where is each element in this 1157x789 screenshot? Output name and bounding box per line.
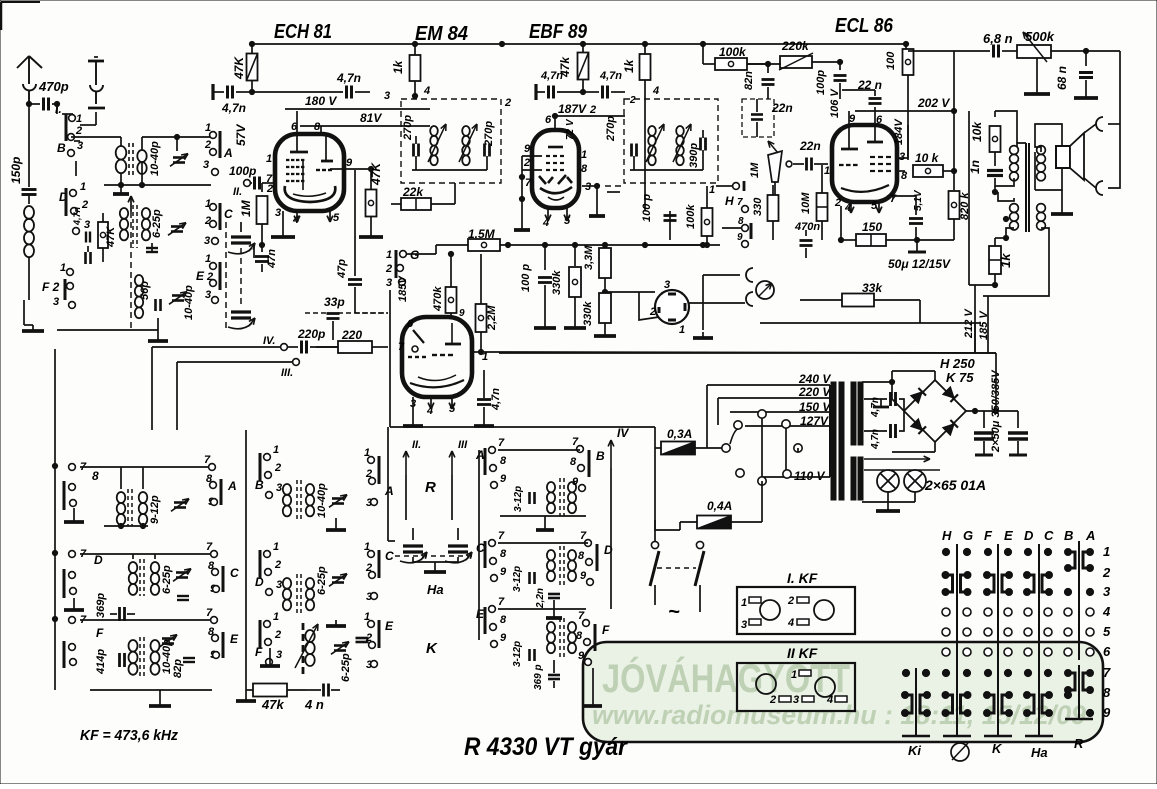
svg-text:4,7n: 4,7n bbox=[540, 70, 563, 82]
svg-text:EBF 89: EBF 89 bbox=[529, 21, 588, 43]
capacitor 82n bbox=[765, 61, 770, 66]
ground between filters bbox=[880, 399, 882, 407]
svg-text:47K: 47K bbox=[232, 56, 246, 80]
svg-text:G: G bbox=[410, 248, 419, 262]
svg-text:H 250: H 250 bbox=[940, 356, 975, 371]
coil IF secondary with core arrow bbox=[462, 126, 470, 136]
svg-text:II KF: II KF bbox=[787, 645, 818, 661]
wire fuse feed bbox=[655, 448, 680, 530]
svg-text:22n: 22n bbox=[799, 139, 821, 153]
svg-text:8: 8 bbox=[500, 455, 507, 467]
svg-text:5: 5 bbox=[1103, 624, 1111, 639]
capacitor 4,7n EM84 bbox=[483, 394, 485, 398]
wire bottom row3 bbox=[57, 329, 158, 331]
watermark radiomuseum box bbox=[583, 642, 1103, 742]
speaker bbox=[1056, 146, 1070, 168]
svg-text:1: 1 bbox=[80, 181, 86, 193]
wire bank1 left rail bbox=[54, 349, 56, 690]
svg-text:2×65 01A: 2×65 01A bbox=[924, 477, 986, 493]
wires row3 bottom bbox=[90, 689, 212, 691]
dashed box EBF89 IF transformer bbox=[624, 99, 718, 183]
svg-text:3: 3 bbox=[205, 289, 211, 301]
trimmer bank2 row1 bbox=[332, 497, 344, 500]
svg-text:4,7n: 4,7n bbox=[72, 206, 82, 226]
svg-text:3-12p: 3-12p bbox=[513, 486, 524, 512]
svg-text:2: 2 bbox=[266, 183, 273, 195]
IF transformer 2 6-25p bbox=[120, 208, 128, 219]
svg-text:82p: 82p bbox=[172, 659, 184, 678]
svg-text:4,7n: 4,7n bbox=[336, 71, 361, 85]
coil mid row2 bbox=[547, 550, 555, 560]
svg-text:6-25p: 6-25p bbox=[340, 653, 352, 682]
mechanical link dashed bbox=[395, 555, 476, 557]
svg-text:369 p: 369 p bbox=[533, 664, 544, 690]
tuning varcap 2 bbox=[231, 310, 251, 313]
svg-text:4: 4 bbox=[787, 617, 794, 629]
svg-text:1: 1 bbox=[76, 113, 82, 125]
wire top HT bus bbox=[252, 43, 908, 45]
wires jacks bbox=[1084, 124, 1096, 133]
svg-text:2,2n: 2,2n bbox=[535, 588, 546, 609]
svg-text:270p: 270p bbox=[483, 121, 495, 147]
svg-text:II.: II. bbox=[233, 186, 242, 198]
svg-text:100k: 100k bbox=[719, 45, 747, 59]
svg-text:6: 6 bbox=[876, 114, 883, 126]
wire vertical 954 drop bbox=[953, 51, 955, 111]
svg-text:3: 3 bbox=[204, 235, 210, 247]
svg-text:4,7n: 4,7n bbox=[870, 429, 881, 450]
IF transformer 1 10-40p bbox=[74, 136, 121, 138]
trimmer row2 bbox=[176, 571, 188, 574]
wire 500k wiper to ground bbox=[1036, 58, 1038, 88]
contact 7 row3 bbox=[69, 617, 76, 624]
svg-text:3: 3 bbox=[585, 181, 591, 193]
svg-text:F 2: F 2 bbox=[42, 280, 60, 294]
capacitor 6-25 trim bbox=[171, 225, 183, 228]
capacitor 6,8n bbox=[908, 50, 990, 52]
svg-text:2: 2 bbox=[523, 157, 530, 169]
svg-text:330k: 330k bbox=[551, 270, 563, 295]
svg-text:100k: 100k bbox=[685, 204, 697, 229]
wire 427 line bbox=[390, 426, 655, 428]
trimmer bank2 row2 bbox=[332, 576, 344, 579]
matrix row7 contacts bbox=[902, 669, 909, 676]
svg-text:220: 220 bbox=[341, 328, 362, 342]
svg-text:4: 4 bbox=[423, 85, 430, 97]
svg-text:2: 2 bbox=[629, 95, 636, 106]
matrix label speaker symbol bbox=[951, 743, 969, 761]
wires mid row2 bbox=[498, 542, 588, 544]
svg-text:EM 84: EM 84 bbox=[415, 23, 468, 45]
resistor 1k EBF89 right bbox=[644, 44, 646, 54]
svg-text:A: A bbox=[227, 479, 237, 493]
svg-text:100 p: 100 p bbox=[520, 264, 532, 292]
svg-text:220p: 220p bbox=[297, 327, 325, 341]
resistor 2,2M EM84 bbox=[476, 304, 487, 332]
svg-text:7: 7 bbox=[398, 341, 405, 353]
svg-text:187V: 187V bbox=[558, 102, 587, 116]
svg-text:1k: 1k bbox=[998, 253, 1013, 268]
svg-text:IV.: IV. bbox=[263, 335, 275, 347]
power transformer core bbox=[831, 382, 836, 500]
svg-text:3: 3 bbox=[84, 219, 90, 231]
svg-text:9: 9 bbox=[346, 157, 353, 169]
scan edge artifact bbox=[1, 1, 40, 3]
svg-text:47p: 47p bbox=[336, 259, 348, 279]
svg-text:1: 1 bbox=[273, 611, 279, 623]
svg-text:2: 2 bbox=[274, 462, 281, 474]
svg-text:1: 1 bbox=[791, 669, 797, 681]
svg-text:8: 8 bbox=[576, 630, 583, 642]
svg-text:6: 6 bbox=[407, 318, 414, 330]
EBF89 cathode bus left bbox=[521, 156, 523, 224]
coil antenna bbox=[24, 206, 34, 219]
svg-text:6-25p: 6-25p bbox=[151, 209, 163, 238]
svg-text:5: 5 bbox=[333, 212, 340, 224]
IF transformer 6-25p bbox=[129, 562, 138, 573]
svg-text:10-40p: 10-40p bbox=[183, 285, 195, 320]
svg-text:2: 2 bbox=[274, 559, 281, 571]
svg-text:2: 2 bbox=[834, 197, 841, 209]
capacitor 100p det bbox=[644, 96, 646, 211]
phono socket bbox=[655, 290, 689, 324]
ground bank2 row1 bbox=[335, 524, 337, 530]
resistor 1k EM84 anode bbox=[414, 44, 416, 55]
capacitor 100p at 220k bbox=[812, 61, 840, 63]
svg-text:9: 9 bbox=[572, 476, 579, 488]
svg-text:1: 1 bbox=[1103, 544, 1110, 559]
ground tuning bbox=[413, 557, 435, 562]
potentiometer 1M volume bbox=[768, 151, 782, 182]
svg-text:F: F bbox=[602, 623, 610, 637]
resistor 100k screen ECL86 bbox=[702, 44, 704, 64]
IF transformer bank2 row2 bbox=[283, 578, 291, 589]
wire HT 323 line bbox=[919, 300, 921, 323]
svg-text:414p: 414p bbox=[95, 649, 107, 675]
svg-text:A: A bbox=[223, 146, 233, 160]
resistor 33k bbox=[800, 299, 843, 301]
wire 92 to 4,7n coupling bbox=[252, 91, 343, 93]
IF transformer 9-12p bbox=[117, 492, 126, 503]
wire HT line 353 bbox=[499, 352, 996, 354]
svg-text:8: 8 bbox=[500, 548, 507, 560]
resistor 820k bbox=[953, 171, 955, 190]
svg-text:~: ~ bbox=[668, 601, 680, 623]
svg-text:270p: 270p bbox=[402, 115, 414, 141]
svg-text:K 75: K 75 bbox=[946, 370, 974, 385]
svg-text:7: 7 bbox=[525, 177, 532, 189]
svg-text:R: R bbox=[1074, 736, 1084, 751]
tube EM84 envelope bbox=[402, 317, 472, 397]
svg-text:184V: 184V bbox=[893, 118, 905, 145]
svg-text:2: 2 bbox=[274, 629, 281, 641]
svg-text:185V: 185V bbox=[397, 275, 409, 302]
tuning gang varcap left bbox=[403, 544, 423, 547]
svg-text:7: 7 bbox=[498, 596, 505, 608]
coil IF3 secondary bbox=[676, 126, 684, 136]
svg-text:2: 2 bbox=[649, 306, 656, 318]
coil mid row3 bbox=[547, 622, 555, 632]
matrix rows2-3 contacts bbox=[946, 575, 953, 592]
svg-text:ECL 86: ECL 86 bbox=[835, 15, 894, 37]
svg-text:2: 2 bbox=[504, 97, 511, 109]
svg-text:2: 2 bbox=[81, 199, 88, 211]
wire antenna down bbox=[56, 104, 58, 114]
svg-text:369p: 369p bbox=[95, 593, 107, 618]
svg-text:E: E bbox=[230, 632, 239, 646]
EM84 internals bbox=[413, 330, 424, 343]
dashed box EM84 IF transformer bbox=[401, 99, 501, 183]
svg-text:3: 3 bbox=[276, 579, 282, 591]
svg-text:II.: II. bbox=[412, 439, 421, 451]
svg-text:4: 4 bbox=[1102, 604, 1111, 619]
svg-text:1: 1 bbox=[386, 249, 392, 261]
svg-text:10-40p: 10-40p bbox=[316, 483, 328, 518]
svg-text:3: 3 bbox=[275, 207, 281, 219]
svg-text:9: 9 bbox=[500, 632, 507, 644]
svg-text:9: 9 bbox=[1103, 705, 1111, 720]
svg-text:8: 8 bbox=[1103, 685, 1111, 700]
svg-text:4: 4 bbox=[652, 85, 659, 97]
potentiometer 500k bbox=[1017, 45, 1051, 58]
svg-text:3: 3 bbox=[741, 619, 747, 631]
svg-text:202 V: 202 V bbox=[917, 96, 950, 110]
capacitor 4,7n coupling ECH81-EM84 bbox=[345, 86, 348, 99]
matrix switch shafts bbox=[956, 544, 958, 736]
matrix row1 contacts bbox=[942, 548, 949, 555]
wires row2 bbox=[80, 553, 210, 555]
svg-text:1k: 1k bbox=[622, 58, 636, 73]
svg-text:1: 1 bbox=[679, 324, 685, 336]
svg-text:R: R bbox=[425, 479, 436, 496]
svg-text:4,7n: 4,7n bbox=[599, 70, 622, 82]
capacitor 4,7n RF filter bottom bbox=[864, 430, 887, 432]
svg-text:9-12p: 9-12p bbox=[149, 495, 161, 524]
svg-text:47n: 47n bbox=[266, 249, 278, 269]
resistor 47K cathode ECH81 bbox=[330, 168, 371, 170]
svg-text:6: 6 bbox=[1103, 644, 1111, 659]
capacitor 47p bbox=[354, 170, 356, 276]
capacitor 4,7n left of 47k bbox=[534, 84, 537, 100]
IF transformer 10-40p bbox=[129, 640, 138, 652]
svg-text:240 V: 240 V bbox=[798, 372, 831, 386]
output transformer OT1 bbox=[1025, 143, 1027, 232]
svg-text:220 V: 220 V bbox=[798, 385, 831, 399]
potentiometer 220k bbox=[780, 56, 812, 68]
svg-text:8: 8 bbox=[581, 163, 588, 175]
svg-text:9: 9 bbox=[580, 570, 587, 582]
svg-text:9: 9 bbox=[849, 113, 856, 125]
wire III vertical bbox=[176, 362, 178, 430]
svg-text:III: III bbox=[458, 439, 468, 451]
svg-text:100p: 100p bbox=[815, 70, 827, 95]
svg-text:6-25p: 6-25p bbox=[161, 565, 173, 594]
capacitor 4,7n input left bbox=[211, 84, 214, 100]
svg-text:7: 7 bbox=[498, 437, 505, 449]
ground third bbox=[157, 335, 159, 341]
svg-text:10 k: 10 k bbox=[915, 151, 940, 165]
svg-text:E: E bbox=[196, 269, 205, 283]
dashed box 22n bbox=[742, 99, 774, 137]
svg-text:110 V: 110 V bbox=[794, 469, 825, 483]
svg-text:1k: 1k bbox=[391, 59, 405, 74]
EBF89 internal electrodes bbox=[548, 146, 563, 149]
svg-text:3: 3 bbox=[1103, 584, 1111, 599]
trimmer row3 bbox=[162, 637, 174, 640]
wire 81V line bbox=[300, 125, 430, 127]
IF transformer bank2 row1 bbox=[283, 484, 291, 495]
svg-text:0,4A: 0,4A bbox=[707, 499, 732, 513]
ECH81 internal electrodes bbox=[290, 151, 308, 154]
capacitor 100p bbox=[544, 245, 546, 270]
capacitor 220p IV node bbox=[281, 344, 288, 351]
wire 969 vertical bbox=[968, 111, 970, 285]
svg-text:270p: 270p bbox=[605, 116, 617, 142]
resistor 100 ECL86 anode stopper bbox=[905, 44, 907, 49]
svg-text:3: 3 bbox=[899, 151, 905, 163]
resistor 10M bbox=[817, 193, 828, 221]
svg-text:KF = 473,6 kHz: KF = 473,6 kHz bbox=[80, 727, 178, 744]
antenna symbol bbox=[28, 56, 30, 84]
capacitor 47n cathode bbox=[259, 242, 264, 247]
svg-text:C: C bbox=[385, 549, 394, 563]
svg-text:3: 3 bbox=[384, 90, 390, 102]
matrix rows8-9 contacts bbox=[905, 695, 912, 713]
resistor 330k bbox=[574, 245, 576, 266]
node III bbox=[293, 359, 300, 366]
svg-text:6,8 n: 6,8 n bbox=[983, 31, 1013, 46]
resistor 47K anode ECH81 bbox=[251, 44, 253, 54]
svg-text:H: H bbox=[725, 194, 734, 208]
svg-text:1: 1 bbox=[709, 184, 715, 196]
svg-text:330k: 330k bbox=[582, 301, 594, 326]
resistor 47k osc bbox=[253, 684, 287, 697]
resistor 47k EBF89 anode bbox=[582, 44, 584, 53]
svg-text:2: 2 bbox=[385, 263, 392, 275]
svg-text:1M: 1M bbox=[749, 162, 761, 178]
contact 7 row1 bbox=[69, 464, 76, 471]
resistor 10k feedback bbox=[994, 111, 996, 117]
wires mid row1 bbox=[498, 449, 580, 451]
ground bank2 row3 bbox=[269, 660, 271, 666]
pickup connector bbox=[756, 281, 774, 299]
svg-text:IV: IV bbox=[617, 426, 629, 440]
tuning gang varcap right bbox=[448, 544, 468, 547]
wire 180V line bbox=[285, 108, 430, 110]
wire bottom mid connects bbox=[645, 244, 703, 246]
svg-text:10M: 10M bbox=[800, 192, 812, 214]
resistor 330k lower bbox=[599, 293, 611, 323]
svg-text:2: 2 bbox=[589, 104, 596, 116]
svg-text:47k: 47k bbox=[261, 697, 284, 712]
svg-text:150: 150 bbox=[862, 220, 882, 234]
svg-text:1: 1 bbox=[273, 444, 279, 456]
svg-text:72 V: 72 V bbox=[565, 118, 576, 140]
ground mid row3 bbox=[592, 700, 594, 706]
dashed switch shaft left bank bbox=[225, 222, 227, 332]
output jack bottom bbox=[1096, 181, 1103, 195]
svg-text:470p: 470p bbox=[38, 79, 69, 94]
svg-text:1: 1 bbox=[266, 153, 272, 165]
resistor 100k det bbox=[702, 208, 713, 236]
svg-text:150p: 150p bbox=[9, 157, 23, 184]
svg-text:180 V: 180 V bbox=[305, 94, 337, 108]
resistor 470k EM84 bbox=[450, 311, 452, 317]
wire AGC arrow dashed bbox=[130, 196, 132, 212]
op tube ECH81 envelope bbox=[275, 134, 344, 211]
contact 7 row2 bbox=[69, 551, 76, 558]
mains switch bbox=[651, 541, 658, 548]
wires secondary loop bbox=[983, 228, 1049, 296]
svg-text:7: 7 bbox=[1103, 665, 1111, 680]
svg-text:68 n: 68 n bbox=[1055, 66, 1069, 90]
svg-text:3: 3 bbox=[203, 159, 209, 171]
speaker wires bbox=[1035, 124, 1062, 152]
svg-text:A: A bbox=[1085, 528, 1095, 543]
svg-text:G: G bbox=[963, 528, 973, 543]
wires OT primary bottom bbox=[995, 178, 1014, 186]
svg-text:ECH 81: ECH 81 bbox=[274, 21, 332, 43]
svg-text:9: 9 bbox=[578, 650, 585, 662]
resistor 47K AGC bbox=[98, 222, 108, 248]
capacitor row2 bbox=[177, 595, 189, 597]
svg-text:10-40p: 10-40p bbox=[149, 141, 161, 176]
svg-text:3: 3 bbox=[276, 482, 282, 494]
headphone jacks mid bbox=[746, 268, 753, 282]
svg-text:1: 1 bbox=[60, 262, 66, 274]
svg-text:9: 9 bbox=[459, 308, 465, 319]
svg-text:8: 8 bbox=[500, 614, 507, 626]
resistor 220 bbox=[338, 341, 372, 353]
wires left bank interconnect bbox=[80, 124, 96, 126]
matrix rows4-6 open contacts bbox=[942, 608, 950, 616]
svg-text:B: B bbox=[1064, 528, 1073, 543]
ground left bottom bbox=[23, 300, 25, 325]
wire right edge loop bbox=[1119, 51, 1121, 120]
svg-text:4: 4 bbox=[826, 694, 833, 706]
svg-text:B: B bbox=[596, 449, 605, 463]
wire IV line left bbox=[152, 346, 280, 348]
svg-text:2: 2 bbox=[75, 125, 82, 137]
tube EBF89 envelope bbox=[532, 130, 579, 208]
earth antenna terminal bbox=[94, 56, 98, 58]
wires mid row3 bbox=[498, 608, 586, 610]
svg-text:3: 3 bbox=[664, 279, 670, 291]
resistor 22k bbox=[401, 198, 431, 210]
svg-text:1: 1 bbox=[741, 597, 747, 609]
coil IF primary with core arrow bbox=[430, 126, 438, 136]
svg-text:C: C bbox=[1044, 528, 1054, 543]
capacitor 56p? bbox=[84, 252, 87, 264]
svg-text:6: 6 bbox=[545, 114, 552, 126]
svg-text:Ha: Ha bbox=[1031, 745, 1048, 760]
svg-text:C: C bbox=[230, 566, 239, 580]
svg-text:2,2M: 2,2M bbox=[486, 305, 498, 331]
ground row1 bbox=[73, 516, 75, 522]
wire bank2 rail bbox=[245, 430, 247, 695]
svg-text:22n: 22n bbox=[771, 101, 793, 115]
svg-text:H: H bbox=[942, 528, 952, 543]
resistor 330 bbox=[768, 195, 779, 221]
capacitor 4,7n RF filter top bbox=[864, 398, 887, 400]
svg-text:D: D bbox=[1024, 528, 1034, 543]
contact bar 8-9 row1 bbox=[63, 481, 66, 510]
wire 212/185 drops bbox=[974, 323, 976, 353]
wire IF box1 bottom bbox=[412, 169, 487, 171]
svg-text:33p: 33p bbox=[324, 295, 345, 309]
capacitor 1n feedback bbox=[994, 152, 996, 166]
svg-text:K: K bbox=[426, 640, 438, 657]
